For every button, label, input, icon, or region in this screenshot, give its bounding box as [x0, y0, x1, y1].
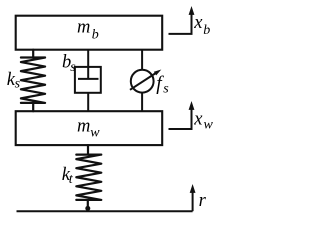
label k_s: [7, 70, 21, 92]
svg-text:s: s: [163, 82, 169, 97]
arrow x_b: [169, 6, 195, 34]
label f_s: [156, 74, 169, 97]
svg-text:w: w: [90, 126, 100, 141]
svg-text:s: s: [15, 77, 21, 92]
damper b_s rod top: [87, 50, 89, 79]
actuator f_s rod top: [141, 50, 143, 70]
label m_b: [77, 18, 99, 43]
label r: [199, 191, 207, 211]
arrow x_w: [169, 101, 195, 129]
mass m_w: [16, 111, 163, 145]
actuator f_s arrow: [130, 70, 161, 90]
label x_b: [193, 13, 210, 38]
arrow r: [190, 184, 196, 211]
damper b_s cylinder: [75, 67, 101, 93]
actuator f_s rod bottom: [141, 93, 143, 112]
label k_t: [62, 165, 74, 187]
spring k_t: [76, 145, 101, 206]
svg-text:t: t: [69, 172, 74, 187]
svg-text:m: m: [77, 18, 90, 38]
svg-text:w: w: [204, 118, 214, 133]
svg-text:s: s: [70, 60, 76, 75]
svg-text:x: x: [193, 110, 203, 130]
spring k_s: [21, 50, 45, 111]
mass m_b: [16, 16, 163, 50]
actuator f_s circle: [131, 70, 154, 93]
svg-text:b: b: [203, 23, 210, 38]
label x_w: [193, 110, 213, 133]
junction dot: [85, 206, 90, 211]
svg-text:x: x: [193, 13, 203, 33]
label b_s: [62, 52, 76, 75]
label m_w: [77, 116, 100, 140]
svg-text:b: b: [92, 28, 99, 43]
damper b_s rod bottom: [87, 93, 89, 111]
svg-text:m: m: [77, 116, 90, 136]
damper b_s piston: [78, 78, 99, 80]
svg-text:r: r: [199, 191, 207, 211]
ground line: [17, 210, 193, 212]
